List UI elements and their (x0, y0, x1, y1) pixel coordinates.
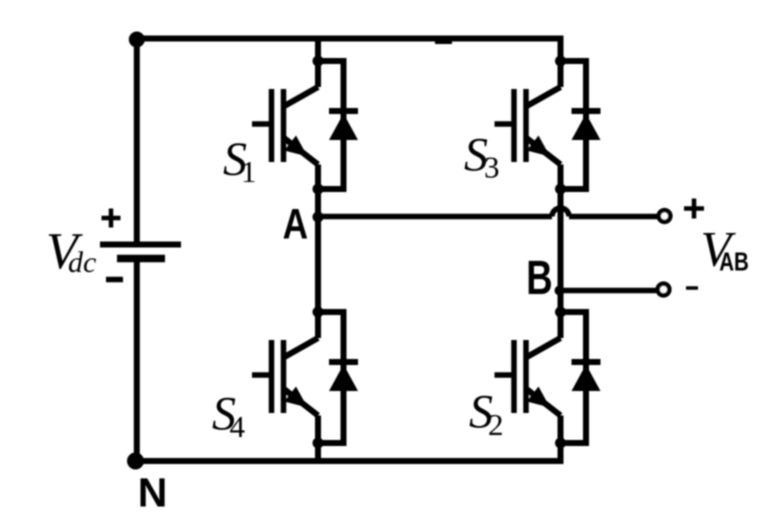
node: collector junction of S2 (top of pair) (555, 307, 566, 318)
wire: right leg from S3 emitter through node B to S2 collector (558, 189, 564, 312)
wire: positive DC rail (top horizontal) (134, 36, 564, 42)
transistor S3 (IGBT: gate bars, collector/emitter diagonals, emitter arrow) (495, 61, 561, 189)
diode D1 (antiparallel freewheeling diode of S1) (329, 111, 358, 140)
label: + polarity of battery (102, 209, 121, 228)
wire: crossover hop over right leg (no connection) (552, 208, 569, 217)
svg-text:dc: dc (68, 246, 96, 279)
node: emitter junction of S3 (bottom of pair) (555, 184, 566, 195)
diode D4 (antiparallel freewheeling diode of S4) (329, 362, 358, 391)
wire: battery positive lead (left vertical, top) (134, 39, 140, 245)
wire: left leg from S1 emitter to node A (315, 189, 321, 217)
diode D3 (antiparallel freewheeling diode of S3) (572, 111, 601, 140)
transistor S2 (IGBT: gate bars, collector/emitter diagonals, emitter arrow) (495, 312, 561, 443)
wire: overlap mark on top rail (435, 37, 452, 44)
svg-text:N: N (138, 470, 168, 516)
terminal: + output terminal (open circle) (659, 210, 671, 222)
diode D2 (antiparallel freewheeling diode of S2) (572, 362, 601, 391)
svg-text:AB: AB (719, 247, 749, 276)
wire: right leg from top rail to S3 collector (558, 36, 564, 62)
transistor S1 (IGBT: gate bars, collector/emitter diagonals, emitter arrow) (252, 61, 318, 189)
node A (phase-leg output A) (313, 212, 324, 223)
wire: output wire from node A toward + terminal (left part) (318, 214, 552, 220)
wire: diode branch loop for D3 (right of S3) (561, 61, 587, 189)
label: - polarity of battery (106, 277, 123, 283)
terminal: - output terminal (open circle) (658, 284, 670, 296)
label: + sign at output terminal (684, 199, 704, 219)
battery Vdc (DC source) (100, 245, 181, 259)
svg-text:4: 4 (230, 409, 246, 444)
wire: negative DC rail (bottom horizontal) (133, 458, 564, 464)
node: top-left junction (battery + to rail) (129, 32, 145, 48)
svg-text:2: 2 (488, 407, 504, 442)
svg-text:B: B (526, 251, 552, 305)
node: emitter junction of S4 (bottom of pair) (313, 438, 324, 449)
wire: left leg from top rail to S1 collector (315, 36, 321, 62)
node: emitter junction of S2 (bottom of pair) (555, 438, 566, 449)
transistor S4 (IGBT: gate bars, collector/emitter diagonals, emitter arrow) (252, 312, 318, 443)
wire: diode branch loop for D1 (right of S1) (318, 61, 344, 189)
wire: diode branch loop for D2 (right of S2) (561, 312, 587, 443)
node: emitter junction of S1 (bottom of pair) (313, 184, 324, 195)
wire: left leg from S4 emitter to bottom rail (315, 443, 321, 464)
node: collector junction of S3 (top of pair) (555, 56, 566, 67)
wire: right leg from S2 emitter to bottom rail (558, 443, 564, 464)
svg-text:A: A (283, 200, 308, 248)
label: - sign at output terminal (686, 286, 698, 290)
wire: battery negative lead (left vertical, bottom) (134, 259, 140, 462)
svg-text:3: 3 (484, 150, 500, 185)
wire: output wire from node B to - terminal (560, 288, 657, 294)
node N (negative bus junction) (127, 453, 144, 470)
svg-text:1: 1 (241, 154, 257, 189)
wire: output wire continuing to + terminal (569, 214, 657, 220)
node: collector junction of S1 (top of pair) (313, 56, 324, 67)
node B (phase-leg output B) (555, 286, 565, 296)
wire: left leg from node A to S4 collector (315, 217, 321, 312)
node: collector junction of S4 (top of pair) (313, 307, 324, 318)
wire: diode branch loop for D4 (right of S4) (318, 312, 344, 443)
